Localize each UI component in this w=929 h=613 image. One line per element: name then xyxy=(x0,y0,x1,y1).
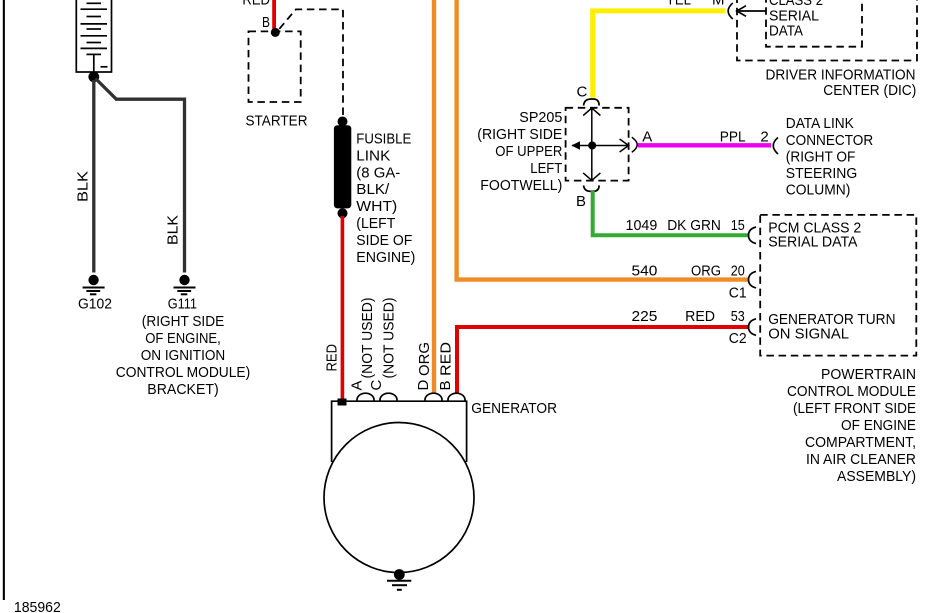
connector pin 53 at PCM xyxy=(749,319,757,336)
node fusible link bottom xyxy=(338,208,348,218)
svg-text:RED: RED xyxy=(685,308,715,325)
wire PPL splice A to DLC pin 2 xyxy=(638,143,771,147)
svg-text:PPL: PPL xyxy=(720,129,746,146)
svg-text:B: B xyxy=(437,380,454,390)
wire RED 225 generator B to PCM C2 pin 53 xyxy=(457,327,750,393)
terminal arc C xyxy=(380,393,397,401)
svg-text:A: A xyxy=(349,380,366,390)
wire ORG 540 to PCM C1 pin 20 xyxy=(457,0,750,280)
svg-text:ENGINE): ENGINE) xyxy=(356,249,415,266)
svg-text:(LEFT FRONT SIDE: (LEFT FRONT SIDE xyxy=(793,400,916,417)
svg-text:OF UPPER: OF UPPER xyxy=(495,143,562,160)
svg-text:IN AIR CLEANER: IN AIR CLEANER xyxy=(806,451,916,468)
DIC driver information center xyxy=(737,0,917,99)
svg-text:RED: RED xyxy=(438,342,455,376)
svg-text:DATA LINK: DATA LINK xyxy=(786,115,854,132)
svg-text:(NOT USED): (NOT USED) xyxy=(359,298,376,379)
PCM powertrain control module xyxy=(760,215,916,485)
terminal arc B xyxy=(448,393,465,401)
svg-text:C: C xyxy=(368,380,385,391)
svg-text:ORG: ORG xyxy=(691,263,721,280)
node battery negative terminal xyxy=(88,71,99,82)
splice SP205 xyxy=(566,108,629,181)
svg-text:B: B xyxy=(262,14,270,31)
connector A at splice xyxy=(632,129,653,153)
svg-text:CONTROL MODULE: CONTROL MODULE xyxy=(787,383,916,400)
wire YEL splice C to DIC terminal M xyxy=(593,11,726,98)
svg-text:540: 540 xyxy=(632,263,658,280)
DIC class 2 serial data box xyxy=(766,0,862,47)
connector C at splice xyxy=(577,84,600,106)
svg-text:STARTER: STARTER xyxy=(246,113,308,130)
svg-text:1049: 1049 xyxy=(626,217,658,234)
svg-text:G102: G102 xyxy=(78,296,112,313)
svg-text:C1: C1 xyxy=(729,284,747,301)
svg-text:(RIGHT OF: (RIGHT OF xyxy=(786,149,856,166)
svg-text:(LEFT: (LEFT xyxy=(356,215,395,232)
svg-text:ORG: ORG xyxy=(416,342,433,376)
svg-text:OF ENGINE: OF ENGINE xyxy=(841,417,916,434)
wire starter B to fusible link (dashed) xyxy=(279,9,343,116)
svg-text:BLK/: BLK/ xyxy=(356,181,390,198)
svg-text:(RIGHT SIDE: (RIGHT SIDE xyxy=(142,313,224,330)
svg-text:COMPARTMENT,: COMPARTMENT, xyxy=(805,434,916,451)
svg-text:WHT): WHT) xyxy=(356,198,397,215)
svg-text:GENERATOR: GENERATOR xyxy=(471,400,557,417)
svg-text:SERIAL DATA: SERIAL DATA xyxy=(768,234,857,251)
fusible link xyxy=(334,125,351,208)
svg-text:BLK: BLK xyxy=(165,215,182,245)
svg-text:(8 GA-: (8 GA- xyxy=(356,164,400,181)
svg-text:ON IGNITION: ON IGNITION xyxy=(141,347,226,364)
ground G102 xyxy=(78,275,112,313)
connector DLC xyxy=(773,115,873,199)
terminal arc D xyxy=(425,393,442,401)
svg-text:OF ENGINE,: OF ENGINE, xyxy=(145,330,221,347)
connector pin 15 at PCM xyxy=(749,227,757,244)
node B starter terminal xyxy=(262,14,280,37)
svg-text:20: 20 xyxy=(731,263,745,280)
svg-text:(NOT USED): (NOT USED) xyxy=(381,298,398,379)
svg-text:BRACKET): BRACKET) xyxy=(147,381,218,398)
svg-text:C: C xyxy=(577,84,588,101)
svg-text:185962: 185962 xyxy=(14,599,61,613)
svg-text:2: 2 xyxy=(760,129,768,146)
svg-text:SIDE OF: SIDE OF xyxy=(356,232,412,249)
svg-text:RED: RED xyxy=(324,344,341,372)
svg-text:STEERING: STEERING xyxy=(786,165,858,182)
wire ORG to generator terminal D xyxy=(432,0,436,393)
svg-text:CONNECTOR: CONNECTOR xyxy=(786,132,874,149)
node fusible link top xyxy=(338,117,348,127)
connector M at DIC xyxy=(728,3,766,19)
wire BLK battery to G111 xyxy=(96,79,185,273)
svg-text:DATA: DATA xyxy=(769,23,803,40)
svg-text:(RIGHT SIDE: (RIGHT SIDE xyxy=(477,126,562,143)
svg-text:CENTER (DIC): CENTER (DIC) xyxy=(823,82,916,99)
svg-text:YEL: YEL xyxy=(666,0,691,9)
svg-text:DRIVER INFORMATION: DRIVER INFORMATION xyxy=(766,67,916,84)
starter xyxy=(246,31,308,129)
terminal arc A xyxy=(357,393,374,401)
svg-text:B: B xyxy=(576,193,586,210)
wire BLK battery to G102 xyxy=(92,80,95,273)
label 1049 DK GRN 15 xyxy=(626,217,745,234)
svg-text:A: A xyxy=(642,129,652,146)
wire RED battery feed to starter B xyxy=(272,0,276,29)
label 540 ORG 20 xyxy=(632,263,745,280)
svg-text:ON SIGNAL: ON SIGNAL xyxy=(768,325,849,342)
label SP205 location xyxy=(477,109,562,194)
svg-text:CONTROL MODULE): CONTROL MODULE) xyxy=(116,364,251,381)
svg-text:LINK: LINK xyxy=(356,147,390,164)
svg-text:COLUMN): COLUMN) xyxy=(786,182,851,199)
svg-text:LEFT: LEFT xyxy=(530,160,562,177)
svg-text:DK GRN: DK GRN xyxy=(667,217,721,234)
svg-text:BLK: BLK xyxy=(75,171,92,202)
svg-text:ASSEMBLY): ASSEMBLY) xyxy=(837,468,916,485)
label 225 RED 53 xyxy=(632,308,745,325)
svg-text:53: 53 xyxy=(731,308,745,325)
svg-text:SP205: SP205 xyxy=(519,109,562,126)
node generator BAT terminal xyxy=(338,399,347,406)
ground generator case xyxy=(387,569,411,590)
svg-text:225: 225 xyxy=(632,308,658,325)
ground G111 xyxy=(116,275,251,398)
battery xyxy=(76,0,111,72)
label fusible link description xyxy=(356,131,415,266)
svg-text:D: D xyxy=(415,380,432,391)
svg-text:C2: C2 xyxy=(729,330,747,347)
svg-text:FOOTWELL): FOOTWELL) xyxy=(480,177,562,194)
svg-text:G111: G111 xyxy=(168,296,197,313)
svg-text:POWERTRAIN: POWERTRAIN xyxy=(821,366,916,383)
svg-text:FUSIBLE: FUSIBLE xyxy=(356,131,411,148)
generator xyxy=(324,393,557,572)
connector B at splice xyxy=(576,185,599,210)
connector pin 20 at PCM xyxy=(749,271,757,288)
wire DK GRN 1049 splice B to PCM pin 15 xyxy=(593,191,750,235)
wire RED fusible link to generator BAT xyxy=(341,216,345,399)
svg-text:RED: RED xyxy=(242,0,270,9)
svg-text:M: M xyxy=(712,0,725,9)
svg-text:15: 15 xyxy=(731,217,745,234)
